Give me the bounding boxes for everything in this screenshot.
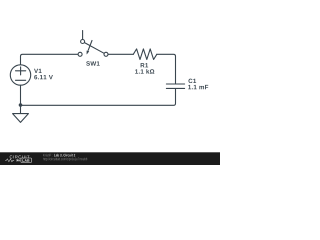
- watermark bar: [0, 152, 220, 165]
- watermark url: [43, 158, 87, 161]
- label V1: [34, 69, 42, 73]
- wire: V1 bottom to ground: [20, 85, 22, 113]
- CircuitLab logo: [5, 155, 31, 162]
- wire: resistor to top-right corner down to capacitor: [157, 54, 176, 83]
- watermark author: [43, 154, 53, 157]
- switch SW1: [78, 31, 108, 57]
- junction node: [19, 103, 23, 107]
- watermark title: [54, 154, 75, 157]
- capacitor C1: [166, 84, 184, 88]
- value 1.10 kOhm: [135, 69, 154, 73]
- voltage source V1: [10, 65, 30, 85]
- wire: switch right terminal to resistor: [108, 53, 133, 55]
- logo word CIRCUIT: [10, 155, 30, 158]
- wire: capacitor bottom to bottom rail back to V1: [21, 89, 176, 106]
- wire: V1 top to switch left terminal: [21, 54, 79, 65]
- resistor R1: [133, 49, 157, 60]
- logo word LAB: [22, 159, 29, 161]
- label R1: [141, 63, 149, 67]
- value 1.10 mF: [188, 85, 208, 89]
- value 6.11 V: [34, 75, 53, 79]
- ground: [13, 114, 29, 123]
- label C1: [188, 79, 196, 83]
- label SW1: [86, 61, 99, 65]
